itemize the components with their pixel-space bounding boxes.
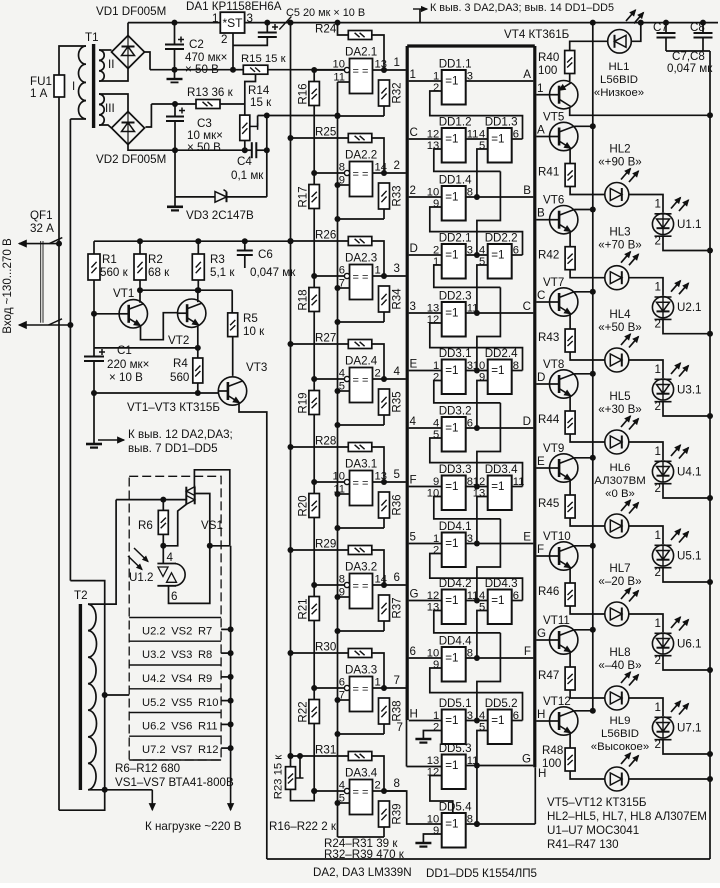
pair col2 inb riser row 5: [477, 381, 488, 429]
transistor VT4 pnp: [550, 81, 578, 109]
svg-text:«0 В»: «0 В»: [605, 488, 635, 500]
svg-text:DD5.4: DD5.4: [439, 801, 472, 814]
svg-text:2: 2: [221, 33, 227, 46]
gate DD5.2: [488, 710, 512, 745]
resistor R44: [569, 396, 571, 411]
svg-text:DA3.2: DA3.2: [345, 561, 377, 574]
transistor VT2: [178, 299, 206, 327]
svg-text:U5.1: U5.1: [677, 550, 702, 563]
divider chain rail: [313, 70, 315, 791]
svg-text:560: 560: [170, 371, 189, 384]
svg-text:VT12: VT12: [543, 695, 571, 708]
U7.1 arrows: [671, 701, 681, 712]
DA2.1 second input stub: [338, 81, 350, 83]
svg-text:R1: R1: [102, 253, 117, 266]
svg-text:1: 1: [537, 82, 543, 95]
ground line under C2: [150, 69, 233, 71]
wire ground to VD3: [174, 150, 176, 197]
VT2 collector wire: [197, 290, 199, 302]
svg-text:VT9: VT9: [543, 442, 564, 455]
svg-text:D: D: [537, 371, 545, 384]
svg-text:H: H: [537, 708, 545, 721]
svg-text:VT1: VT1: [113, 287, 134, 300]
feedback resistor R35: [379, 389, 390, 415]
optocoupler LED U7.1: [629, 698, 663, 716]
wire mains B from T1 primary bottom: [69, 119, 71, 233]
gate DD1.1: [442, 70, 466, 105]
svg-text:7: 7: [394, 674, 400, 687]
DA3.2 output line: [373, 584, 406, 586]
svg-text:5: 5: [433, 429, 439, 441]
optocoupler U1.2 phototriac: [157, 563, 176, 565]
svg-text:R48: R48: [542, 744, 563, 757]
gate DD3.4: [488, 476, 512, 511]
svg-text:R31: R31: [315, 744, 336, 757]
gate DD3.2: [442, 417, 466, 452]
rail from DA1 out: [245, 22, 718, 24]
svg-text:HL6: HL6: [610, 462, 631, 474]
VT3 emitter to bottom bus: [239, 403, 267, 859]
svg-text:U2.2 VS2 R7: U2.2 VS2 R7: [142, 626, 212, 638]
svg-text:DA2.4: DA2.4: [345, 355, 378, 368]
svg-text:A: A: [523, 68, 531, 81]
svg-text:R18: R18: [297, 289, 310, 310]
svg-text:R42: R42: [538, 249, 559, 262]
svg-text:2: 2: [433, 82, 439, 94]
capacitor C2: [174, 23, 176, 45]
DA2.2 second input stub: [338, 184, 350, 186]
feedback resistor R32: [379, 80, 390, 106]
comparator DA3.3: [350, 677, 373, 712]
svg-text:G: G: [537, 627, 546, 640]
svg-text:=1: =1: [445, 422, 458, 435]
DA2.1 output line: [373, 69, 406, 71]
feedback resistor R34: [379, 286, 390, 312]
DA3.4 input line: [314, 790, 347, 792]
DA2.3 output line: [373, 275, 406, 277]
T1 secondary II: [99, 50, 104, 60]
svg-text:U1.1: U1.1: [677, 218, 702, 231]
DA2.4 output line: [373, 378, 406, 380]
svg-text:1: 1: [394, 56, 400, 69]
resistor R41: [569, 149, 571, 164]
svg-text:R37: R37: [391, 597, 404, 618]
feedback resistor R36: [379, 492, 390, 518]
svg-text:HL2: HL2: [609, 143, 630, 156]
svg-text:C: C: [410, 126, 418, 139]
svg-text:2: 2: [394, 159, 400, 172]
svg-text:=1: =1: [445, 652, 458, 665]
svg-text:DD5.3: DD5.3: [439, 742, 472, 755]
resistor R27 pullup: [291, 343, 349, 345]
comparator DA3.1: [350, 471, 373, 506]
svg-text:= =: = =: [353, 787, 369, 799]
VT7 base wire: [536, 301, 549, 303]
transistor VT11: [550, 626, 578, 654]
svg-text:= =: = =: [353, 581, 369, 593]
ground + flag K vyv 12: [93, 393, 95, 444]
net 1 input line to gate row 0: [409, 80, 442, 82]
svg-text:DD4.3: DD4.3: [485, 577, 518, 590]
wire R29 to output node: [372, 550, 384, 585]
col1 to col2 link row 7: [466, 486, 488, 488]
svg-text:U6.2 VS6 R11: U6.2 VS6 R11: [142, 721, 218, 733]
svg-text:E: E: [410, 358, 418, 371]
svg-text:VT5: VT5: [543, 111, 564, 124]
svg-text:C8: C8: [690, 21, 705, 34]
divider resistor R18: [309, 288, 320, 312]
svg-text:«+30 В»: «+30 В»: [598, 403, 642, 416]
resistor R13: [196, 100, 220, 109]
T2 tap wire: [105, 694, 130, 696]
svg-text:4: 4: [394, 365, 401, 378]
pair col2 output line row 9: [512, 600, 523, 602]
svg-text:=1: =1: [491, 249, 504, 262]
comparator DA2.1: [350, 59, 373, 94]
svg-text:DD1.4: DD1.4: [439, 174, 472, 187]
zener diode VD3: [215, 192, 227, 203]
svg-text:U1.2: U1.2: [129, 571, 154, 584]
DD5.1 ground: [423, 731, 441, 740]
VT7 collector to bus: [574, 291, 593, 293]
resistor R31 pullup: [291, 755, 349, 757]
svg-text:DD5.1: DD5.1: [439, 697, 472, 710]
gate DD3.1: [442, 360, 466, 395]
top rail from VD1 to DA1: [128, 22, 220, 24]
svg-text:R2: R2: [148, 253, 163, 266]
svg-text:6: 6: [339, 677, 345, 689]
svg-text:5: 5: [410, 531, 416, 544]
trimmer R23: [290, 755, 292, 767]
resistor R42: [569, 232, 571, 247]
svg-text:U7.2 VS7 R12: U7.2 VS7 R12: [142, 744, 219, 756]
svg-text:R46: R46: [538, 585, 559, 598]
svg-text:R32: R32: [391, 82, 404, 103]
svg-text:*ST: *ST: [223, 16, 244, 30]
svg-text:× 50 В: × 50 В: [187, 141, 221, 154]
wire mains A top to T1 primary: [59, 46, 86, 75]
svg-text:C4: C4: [237, 155, 252, 168]
DD5.3 pin12 loop: [430, 776, 453, 814]
svg-text:HL5: HL5: [609, 390, 630, 403]
R44 to LED wire: [570, 434, 605, 442]
col1 to col2 link row 5: [466, 370, 488, 372]
svg-text:5: 5: [479, 602, 485, 614]
gate DD4.2: [442, 590, 466, 625]
wire III to VD2: [99, 94, 128, 112]
LED HL2: [605, 183, 629, 207]
svg-text:F: F: [410, 474, 417, 487]
R14 wiper to measured line: [257, 116, 259, 127]
transistor VT9: [550, 454, 578, 482]
net 2 input line to gate row 2: [409, 196, 442, 198]
capacitor C7: [665, 23, 667, 33]
resistor R3: [197, 241, 199, 254]
svg-text:13: 13: [427, 755, 439, 767]
pair col2 inb riser row 11: [477, 731, 488, 766]
svg-text:2: 2: [375, 368, 381, 380]
fuse FU1: [54, 75, 65, 97]
VT collector bus: [592, 23, 594, 713]
svg-text:Вход ~130...270 В: Вход ~130...270 В: [1, 238, 14, 334]
svg-text:3: 3: [410, 300, 416, 313]
bias rail: [94, 240, 291, 242]
R15 to R14 top jog: [245, 74, 256, 115]
svg-text:1 А: 1 А: [30, 87, 48, 100]
svg-text:DD1–DD5 К1554ЛП5: DD1–DD5 К1554ЛП5: [426, 867, 537, 880]
descent wire to next group row 3: [477, 287, 501, 370]
svg-text:=1: =1: [445, 714, 458, 727]
svg-text:4: 4: [410, 415, 417, 428]
svg-text:U7.1: U7.1: [677, 722, 702, 735]
svg-text:= =: = =: [353, 478, 369, 490]
gate DD2.3: [442, 302, 466, 337]
svg-text:560 к: 560 к: [100, 266, 129, 279]
svg-text:HL2–HL5, HL7, HL8 АЛ307ЕМ: HL2–HL5, HL7, HL8 АЛ307ЕМ: [547, 810, 707, 823]
pair col2 inb riser row 1: [477, 149, 488, 197]
svg-text:«+70 В»: «+70 В»: [598, 239, 642, 252]
C2 plus sign: [178, 39, 184, 41]
VT11 collector to bus: [574, 629, 593, 631]
ground at VD3: [174, 197, 176, 207]
net H input line to gate row 11: [409, 720, 442, 722]
resistor R1: [93, 241, 95, 254]
divider resistor R21: [309, 597, 320, 621]
svg-text:III: III: [105, 102, 115, 115]
DA3.1 second input stub: [338, 493, 350, 495]
R41 to LED wire: [570, 187, 605, 195]
svg-text:R38: R38: [391, 700, 404, 721]
optocoupler LED U3.1: [629, 360, 663, 378]
svg-text:=1: =1: [445, 594, 458, 607]
wire VD3 to node: [227, 196, 267, 198]
svg-text:1: 1: [212, 12, 218, 25]
VT9 collector to bus: [574, 457, 593, 459]
capacitor C1: [93, 314, 95, 348]
optocoupler U1.2 pin4 wire: [162, 546, 164, 564]
gate DD3.3: [442, 476, 466, 511]
gate DD1.2: [442, 128, 466, 163]
svg-text:VS1–VS7 ВТА41-800В: VS1–VS7 ВТА41-800В: [115, 776, 234, 789]
svg-text:6: 6: [339, 265, 345, 277]
wire mains B to T2 bottom: [70, 581, 104, 790]
divider resistor R16: [309, 82, 320, 106]
svg-text:=1: =1: [491, 594, 504, 607]
single below output row 2: [466, 196, 534, 198]
svg-text:R22: R22: [297, 701, 310, 722]
svg-text:HL3: HL3: [609, 226, 630, 239]
pair col2 output line row 1: [512, 138, 523, 140]
optocoupler LED U6.1: [629, 614, 663, 632]
svg-text:R13 36 к: R13 36 к: [187, 86, 234, 99]
LED HL6: [605, 514, 629, 538]
svg-text:=1: =1: [445, 249, 458, 262]
svg-text:68 к: 68 к: [148, 266, 170, 279]
svg-text:2: 2: [655, 235, 661, 248]
transistor VT8: [550, 370, 578, 398]
svg-text:E: E: [537, 455, 545, 468]
svg-text:6: 6: [394, 571, 400, 584]
pair col2 output line row 5: [512, 370, 523, 372]
svg-text:5: 5: [479, 140, 485, 152]
gate DD4.4: [442, 647, 466, 682]
svg-text:C6: C6: [258, 248, 273, 261]
svg-text:DD3.1: DD3.1: [439, 347, 472, 360]
LED HL4: [605, 348, 629, 372]
svg-text:R20: R20: [297, 495, 310, 516]
HL7 arrows: [621, 588, 631, 599]
DA3.3 input line: [314, 687, 347, 689]
R48 to LED wire: [570, 771, 605, 779]
svg-text:0,047 мк: 0,047 мк: [667, 62, 713, 75]
R46 to LED wire: [570, 606, 605, 614]
svg-text:12: 12: [427, 767, 439, 779]
svg-text:R26: R26: [315, 229, 336, 242]
svg-text:G: G: [410, 588, 419, 601]
gate DD1.3: [488, 128, 512, 163]
U1.1 arrows: [671, 198, 681, 209]
svg-text:DD3.2: DD3.2: [439, 405, 472, 418]
gate DD5.4: [442, 813, 466, 848]
emitter rail to VT3: [94, 392, 218, 394]
svg-text:«Высокое»: «Высокое»: [591, 741, 649, 753]
T2 bottom to load node: [88, 789, 105, 791]
descent wire to next group row 11: [476, 766, 478, 825]
col1 to col2 link row 11: [466, 720, 488, 722]
svg-text:DD2.1: DD2.1: [439, 232, 472, 245]
pair col2 inb riser row 3: [477, 265, 488, 313]
wire mains A bottom corner: [59, 790, 105, 810]
pair col2 inb riser row 9: [477, 611, 488, 659]
VT1 collector wire: [139, 290, 141, 303]
svg-text:= =: = =: [353, 66, 369, 78]
DA2.1 input line: [314, 69, 347, 71]
svg-text:1: 1: [655, 198, 661, 211]
svg-text:VT1–VT3 КТ315Б: VT1–VT3 КТ315Б: [127, 401, 220, 414]
svg-text:HL1: HL1: [609, 61, 630, 73]
svg-text:R4: R4: [173, 357, 188, 370]
HL4 arrows: [621, 334, 631, 345]
collector node line VT1 VT2: [140, 289, 232, 291]
svg-text:12: 12: [427, 314, 439, 326]
resistor R2: [139, 241, 141, 254]
svg-text:R25: R25: [315, 126, 336, 139]
svg-text:B: B: [537, 207, 545, 220]
svg-text:U4.2 VS4 R9: U4.2 VS4 R9: [142, 673, 212, 685]
svg-text:=1: =1: [491, 714, 504, 727]
svg-text:1: 1: [655, 529, 661, 542]
LED HL7: [605, 602, 629, 626]
svg-text:R3: R3: [210, 253, 225, 266]
svg-text:0,1 мк: 0,1 мк: [231, 169, 264, 182]
svg-text:6: 6: [410, 645, 416, 658]
loop wire gate above row 10: [430, 668, 523, 721]
net 5 input line to gate row 8: [409, 543, 442, 545]
transistor VT3: [218, 377, 246, 405]
wire R25 to output node: [372, 138, 384, 173]
svg-text:100: 100: [538, 64, 557, 77]
svg-text:5: 5: [394, 468, 400, 481]
pair col2 output line row 11: [512, 720, 523, 722]
optocoupler LED U2.1: [629, 278, 663, 296]
LED HL1: [608, 30, 632, 54]
descent wire to next group row 5: [477, 403, 501, 487]
svg-text:VD3 2С147В: VD3 2С147В: [186, 209, 254, 222]
DA2.2 input line: [314, 172, 347, 174]
svg-text:32 А: 32 А: [30, 222, 54, 235]
svg-text:L56BID: L56BID: [601, 728, 639, 740]
loop wire gate above row 4: [430, 323, 523, 371]
capacitor C3: [174, 104, 176, 117]
svg-text:= =: = =: [353, 169, 369, 181]
svg-text:DD1.3: DD1.3: [485, 116, 518, 129]
VS1 right terminal wires: [195, 494, 210, 546]
svg-text:VT3: VT3: [246, 361, 267, 374]
svg-text:× 50 В: × 50 В: [185, 63, 219, 76]
single below output row 4: [466, 312, 534, 314]
svg-text:R17: R17: [297, 186, 310, 207]
svg-text:100: 100: [542, 757, 561, 770]
descent wire to next group row 1: [477, 171, 501, 255]
top rail flag K vyv 3: [419, 9, 421, 23]
svg-text:2: 2: [433, 545, 439, 557]
HL1 arrows: [626, 10, 636, 21]
HL5 arrows: [621, 416, 631, 427]
HL2 arrows: [621, 169, 631, 180]
col1 to col2 link row 1: [466, 138, 488, 140]
gate DD5.1: [442, 710, 466, 745]
svg-text:5: 5: [479, 256, 485, 268]
HL6 arrows: [621, 500, 631, 511]
pair col2 inb riser row 7: [477, 497, 488, 544]
comparator DA3.2: [350, 574, 373, 609]
optocoupler LED U5.1: [629, 526, 663, 544]
svg-text:DD2.4: DD2.4: [485, 347, 518, 360]
svg-text:R16–R22 2 к: R16–R22 2 к: [269, 820, 337, 833]
gate DD4.1: [442, 533, 466, 568]
svg-text:2: 2: [655, 738, 661, 751]
resistor R15 line: [233, 69, 243, 71]
DA2.4 input line: [314, 378, 347, 380]
R24 pullup to top rail: [338, 23, 349, 35]
R45 to LED wire: [570, 518, 605, 526]
VT5 collector to bus: [574, 125, 593, 127]
svg-text:U6.1: U6.1: [677, 638, 702, 651]
LED HL5: [605, 430, 629, 454]
svg-text:15 к: 15 к: [250, 96, 272, 109]
DA2.3 second input stub: [338, 287, 350, 289]
svg-text:0,047 мк: 0,047 мк: [250, 266, 296, 279]
svg-text:DD3.3: DD3.3: [439, 463, 472, 476]
svg-text:R47: R47: [538, 669, 559, 682]
svg-text:R35: R35: [391, 391, 404, 412]
svg-text:=1: =1: [445, 537, 458, 550]
svg-text:× 10 В: × 10 В: [109, 371, 143, 384]
divider resistor R17: [309, 185, 320, 209]
svg-text:выв. 7 DD1–DD5: выв. 7 DD1–DD5: [128, 442, 218, 455]
wire R30 to output node: [372, 653, 384, 688]
svg-text:C2: C2: [189, 38, 204, 51]
VT12 collector to bus: [574, 710, 593, 712]
svg-text:DA3.4: DA3.4: [345, 767, 378, 780]
wire R24 to output node: [372, 35, 384, 70]
DA2.4 second input stub: [338, 390, 350, 392]
comparator DA2.2: [350, 162, 373, 197]
gate DD2.4: [488, 360, 512, 395]
transistor VT1: [94, 313, 119, 315]
svg-text:13: 13: [473, 488, 485, 500]
svg-text:DD5.2: DD5.2: [485, 697, 518, 710]
